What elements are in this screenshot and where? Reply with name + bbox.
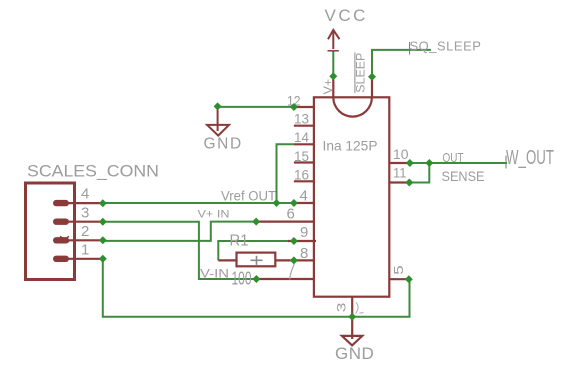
svg-text:Vref OUT: Vref OUT [221,189,276,204]
svg-text:Ina 125P: Ina 125P [323,137,378,153]
junction IC SLEEP pin [368,73,376,81]
wire OUT net pin10 to W_OUT label [410,162,507,164]
connector pads [53,200,69,262]
svg-text:4: 4 [81,186,89,203]
svg-text:16: 16 [294,166,309,182]
junction GND bottom tee [348,313,356,321]
svg-text:1: 1 [81,242,89,259]
svg-text:V-IN: V-IN [200,268,229,280]
junction connector pin3 [99,218,107,226]
svg-text:8: 8 [300,245,308,262]
U1 bottom pin stub 3 continuing to GND symbol [351,297,353,339]
resistor R1 left lead [218,259,236,261]
svg-text:GND: GND [335,344,374,363]
svg-text:100: 100 [232,268,252,289]
svg-text:2: 2 [81,223,89,240]
U1 top pin stubs V+ SLEEP [333,76,372,97]
svg-text:R1: R1 [230,232,249,249]
resistor R1 plus mark [251,256,263,265]
svg-text:6: 6 [287,206,295,223]
svg-text:3: 3 [81,204,89,221]
wire SLEEP pin to SQ_SLEEP label [372,50,431,77]
svg-text:13: 13 [294,111,309,127]
svg-text:SQ_SLEEP: SQ_SLEEP [410,39,482,54]
U1 long pin stub 6 [256,221,314,223]
junction IC pin9 [290,237,298,245]
svg-text:5: 5 [391,265,406,274]
U1 SLEEP overline [354,53,356,94]
svg-text:VCC: VCC [325,6,368,25]
junction IC V+ pin [329,72,337,80]
VCC power symbol arrow [328,30,340,51]
wire VCC to IC V+ pin [332,51,334,77]
wire SENSE pin11 to OUT net [409,163,429,183]
junction IC pin11 [405,179,413,187]
svg-text:15: 15 [294,148,309,164]
junction IC pin8 [290,256,298,264]
wire VREF net connector pin4 to IC pin4 [103,202,294,204]
junction IC pin4 [290,199,298,207]
op-amp U1 Ina 125P body [314,97,389,296]
junction IC pin5 [405,275,413,283]
net label W_OUT origin tick [505,156,507,169]
svg-text:9: 9 [300,224,308,241]
connector pin stubs [61,203,103,259]
svg-text:OUT: OUT [443,151,464,165]
junction connector pin2 [99,236,107,244]
junction connector pin4 [99,199,107,207]
junction IC pin6 [252,218,260,226]
resistor R1 body [237,253,276,267]
svg-text:3: 3 [336,303,348,313]
wire V-IN net connector pin3 to IC pin7 [103,222,257,279]
svg-text:W_OUT: W_OUT [506,147,554,169]
wire V+IN net connector pin2 to IC pin6 [103,222,256,241]
net label SQ_SLEEP origin tick [409,42,411,55]
U1 pin3 decorative curve [356,303,364,314]
svg-text:V+ IN: V+ IN [198,209,230,221]
ground symbol bottom [342,336,362,346]
U1 pin stub 8 with R1 right lead [275,259,314,261]
svg-text:SENSE: SENSE [442,168,485,184]
U1 right pin stubs 10,11,5 [389,163,410,279]
connector SCALES_CONN [26,183,75,280]
wire GND net from pin12 to GND symbol [218,106,294,108]
junction GND top-left [214,102,222,110]
U1 left pin stubs 12,13,14,15,16,4 [294,107,314,203]
ground symbol top-left [207,107,229,136]
U1 pin stub 9 [288,240,316,242]
junction VREF tap [273,199,281,207]
junction IC pin7 [252,275,260,283]
junction IC pin10 [406,159,414,167]
wire GND net connector pin1 to IC pin3 and pin5 [103,259,410,317]
svg-text:SLEEP: SLEEP [356,52,368,92]
junction OUT-SENSE tee [425,159,433,167]
svg-text:14: 14 [294,129,309,145]
wire pin14 tap to VREF net [277,144,294,203]
svg-text:11: 11 [393,165,407,181]
U1 pin number 7 curved glyph [290,264,295,280]
svg-text:V+: V+ [321,79,335,95]
wire R1 to IC pin9 [218,241,294,260]
svg-text:SCALES_CONN: SCALES_CONN [27,161,159,180]
junction connector pin1 [99,255,107,263]
svg-text:GND: GND [204,135,243,152]
svg-text:10: 10 [393,146,409,162]
junction IC pin12 [290,103,298,111]
svg-text:4: 4 [300,188,308,205]
U1 long pin stub 7 [256,278,314,280]
connector pin2 cross mark [60,236,69,242]
